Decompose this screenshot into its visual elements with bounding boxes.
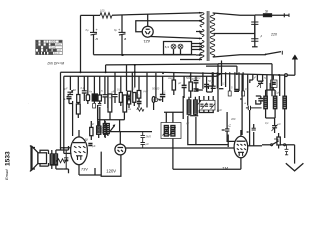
svg-text:4V: 4V bbox=[84, 138, 89, 142]
svg-text:0,1: 0,1 bbox=[197, 76, 201, 80]
svg-text:As: As bbox=[88, 90, 93, 94]
svg-text:As: As bbox=[127, 107, 132, 111]
svg-text:µµF: µµF bbox=[191, 77, 196, 81]
svg-text:50: 50 bbox=[73, 88, 76, 92]
svg-text:0-x-0: 0-x-0 bbox=[51, 46, 57, 49]
svg-text:120V: 120V bbox=[106, 169, 116, 174]
svg-text:AZ1: AZ1 bbox=[143, 39, 150, 43]
svg-text:µF: µF bbox=[65, 87, 68, 91]
svg-text:0,1: 0,1 bbox=[265, 121, 269, 125]
svg-text:+: + bbox=[64, 98, 67, 102]
svg-text:As: As bbox=[170, 76, 175, 80]
svg-text:50µF: 50µF bbox=[274, 91, 280, 95]
svg-text:50: 50 bbox=[211, 81, 214, 85]
svg-text:+: + bbox=[96, 27, 99, 32]
svg-text:µF: µF bbox=[156, 97, 160, 101]
svg-text:µF: µF bbox=[178, 81, 181, 85]
svg-text:µF: µF bbox=[91, 122, 94, 126]
svg-text:73V: 73V bbox=[81, 168, 88, 172]
svg-text:C: C bbox=[229, 124, 232, 128]
svg-text:x-0-x: x-0-x bbox=[55, 43, 61, 46]
svg-text:a: a bbox=[96, 36, 99, 41]
svg-text:0,1: 0,1 bbox=[245, 87, 249, 91]
svg-text:µµF: µµF bbox=[144, 89, 149, 93]
svg-text:0,5: 0,5 bbox=[138, 94, 142, 98]
svg-text:6,3: 6,3 bbox=[165, 45, 170, 49]
svg-text:Emud: Emud bbox=[4, 169, 9, 180]
svg-text:1533: 1533 bbox=[5, 151, 12, 166]
svg-text:100: 100 bbox=[100, 9, 105, 13]
svg-text:µµF: µµF bbox=[217, 108, 222, 112]
svg-text:0,1: 0,1 bbox=[162, 90, 166, 94]
svg-text:2M5: 2M5 bbox=[145, 135, 152, 139]
svg-text:5: 5 bbox=[231, 86, 233, 90]
svg-text:µF: µF bbox=[112, 90, 115, 94]
svg-text:8µ: 8µ bbox=[86, 28, 89, 32]
svg-text:µF: µF bbox=[278, 122, 282, 126]
svg-text:µF: µF bbox=[186, 121, 189, 125]
svg-text:50000: 50000 bbox=[152, 87, 160, 91]
svg-text:0,1: 0,1 bbox=[81, 86, 85, 90]
svg-text:400: 400 bbox=[231, 117, 236, 121]
svg-text:µF: µF bbox=[146, 142, 150, 146]
svg-text:↗: ↗ bbox=[260, 35, 263, 39]
svg-text:a: a bbox=[124, 36, 127, 41]
svg-text:8µ: 8µ bbox=[114, 28, 117, 32]
svg-text:Drh Df+=M: Drh Df+=M bbox=[48, 62, 65, 66]
svg-text:+: + bbox=[109, 96, 111, 100]
svg-text:µF: µF bbox=[92, 144, 96, 148]
svg-text:0,5: 0,5 bbox=[99, 89, 103, 93]
svg-text:0,1: 0,1 bbox=[117, 88, 121, 92]
svg-text:Si: Si bbox=[265, 10, 268, 14]
svg-text:0-x-0: 0-x-0 bbox=[54, 52, 60, 55]
svg-text:0,1: 0,1 bbox=[221, 82, 225, 86]
svg-text:·: · bbox=[28, 102, 29, 105]
svg-text:+: + bbox=[244, 102, 246, 106]
svg-text:T.M: T.M bbox=[222, 167, 228, 171]
svg-text:+: + bbox=[118, 27, 121, 32]
svg-text:220: 220 bbox=[270, 33, 277, 37]
svg-text:µF: µF bbox=[253, 76, 256, 80]
